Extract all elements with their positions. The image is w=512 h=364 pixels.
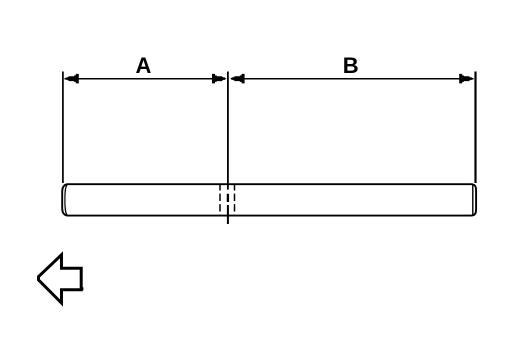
bar right end cap line [472,185,474,216]
bar left end cap arc [65,185,68,216]
center line lower segment [227,205,229,224]
center line middle dash [227,194,229,202]
center line upper segment [227,72,229,190]
arrowhead A left [64,74,79,84]
dimension line B [231,78,474,80]
direction arrow (front indicator) [39,255,82,303]
extension line left [62,72,64,184]
direction arrow corner blob [81,287,84,290]
svg-text:A: A [136,53,152,78]
hidden edge dashed line left [219,185,221,216]
bar outline [62,184,476,215]
svg-text:B: B [343,53,359,78]
extension line right [474,72,476,184]
arrowhead B left [230,74,245,84]
dimension line A [65,78,226,80]
hidden edge dashed line right [234,185,236,216]
arrowhead A right [212,74,227,84]
arrowhead B right [459,74,474,84]
